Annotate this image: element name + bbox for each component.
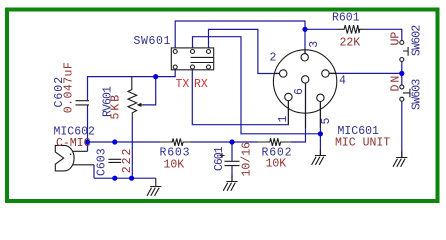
capacitor C602 plates [76,101,90,105]
wire pin 5 lead [319,102,321,128]
switch SW603 [400,85,404,89]
ground (pin5) [312,156,326,165]
svg-text:UP: UP [390,32,403,46]
svg-text:10/16: 10/16 [241,142,254,177]
wire net B: SW601 top-right pin to pin2 [209,29,280,73]
wire pin 1 lead [287,101,289,124]
svg-text:5KB: 5KB [110,93,123,120]
wire net C: SW601 top-middle pin to pin5 junction [193,37,321,134]
wire net D: SW601 bottom-middle pin to pin1 [192,70,288,125]
svg-text:4: 4 [339,75,346,88]
wire C601 top stem [231,142,233,161]
node pin4 / SW602 / SW603 [399,71,404,76]
potentiometer RV601 zigzag [128,77,137,118]
wire R601 left branch [305,28,337,30]
svg-text:5: 5 [320,118,333,125]
microphone MIC602 body [55,145,74,171]
wire mic lower step [93,165,95,178]
node RV601 wiper / TX wire [153,74,158,79]
node RV601 bottom [129,176,134,181]
svg-text:RX: RX [194,78,208,91]
svg-text:SW602: SW602 [411,25,424,56]
wire net A: SW601 top-left pin to pin3 of MIC601 [175,21,305,54]
wire R601 right to SW602 [364,29,402,40]
resistor R601 [337,25,363,33]
svg-text:MIC UNIT: MIC UNIT [335,137,390,150]
svg-text:SW603: SW603 [411,79,424,110]
wire pin5 to ground [319,102,321,156]
node C601 top [229,139,234,144]
svg-text:10K: 10K [164,159,185,172]
svg-text:0.047uF: 0.047uF [63,62,76,113]
svg-text:C601: C601 [213,146,226,171]
node R601 / pin3 [302,27,307,32]
svg-text:6: 6 [293,88,306,95]
wire R602 right to pin6 [291,83,306,142]
border frame [7,10,438,202]
wire pin 6 lead [305,83,307,128]
node C602 / mic / signal bus [85,139,90,144]
svg-text:222: 222 [121,147,134,174]
switch SW601 body [171,48,213,70]
pin 5 [317,94,324,101]
wire pin4 to SW602/SW603 junction [329,72,402,74]
svg-text:SW601: SW601 [134,35,172,48]
svg-text:R601: R601 [332,11,360,24]
wire RV601 wiper [143,77,156,105]
wire mic upper step [87,142,89,151]
svg-text:2: 2 [270,52,277,65]
svg-text:C-MIC: C-MIC [56,137,91,150]
wire SW602 bottom to junction to SW603 top [401,62,403,85]
svg-text:DN: DN [390,74,403,92]
ground (mic bus) [147,178,161,196]
svg-text:1: 1 [277,116,290,123]
pin 3 [301,54,308,61]
wire pin 4 lead [329,72,337,74]
wire SW603 bottom to ground [401,101,403,157]
wire bottom ground bus [94,177,156,179]
svg-text:3: 3 [308,41,321,48]
wire C602 bottom stem [87,105,89,142]
mic terminal leads [73,151,94,165]
wire net E: SW601 bottom-left pin to C602 top [88,70,176,100]
pin 2 [280,70,287,77]
pin 4 [322,70,329,77]
pin 6 center [302,76,309,83]
svg-text:10K: 10K [266,158,287,171]
RV601 wiper arrowhead [141,104,144,106]
ground (C601) [223,182,237,191]
node pin5 / net C [318,131,323,136]
connector MIC601 shell [273,50,336,113]
pin 1 [285,93,292,100]
capacitor C603 plates [108,159,121,162]
wire pin 3 lead [304,50,306,54]
resistor R603 [160,139,191,146]
ground (SW603) [393,158,407,167]
wire R603 to C601 junction to R602 [191,141,258,143]
node C603 bottom [112,176,117,181]
capacitor C601 plates [225,161,240,165]
wire ground stem (C601) [231,175,233,182]
node C603 top [112,139,117,144]
wire pin 2 lead [274,72,279,74]
svg-text:TX: TX [176,78,190,91]
wire ground stem (SW603) [401,152,403,158]
capacitor C601 plus sign [220,153,225,158]
svg-text:C603: C603 [96,148,109,176]
wire C601 bottom stem [231,166,233,182]
wire signal bus left of R603 [88,141,161,143]
wire ground stem (pin5) [319,150,321,156]
switch SW602 [400,41,404,45]
svg-text:22K: 22K [340,37,361,50]
resistor R602 [258,138,291,146]
wire RV601 bottom lead [131,118,133,178]
